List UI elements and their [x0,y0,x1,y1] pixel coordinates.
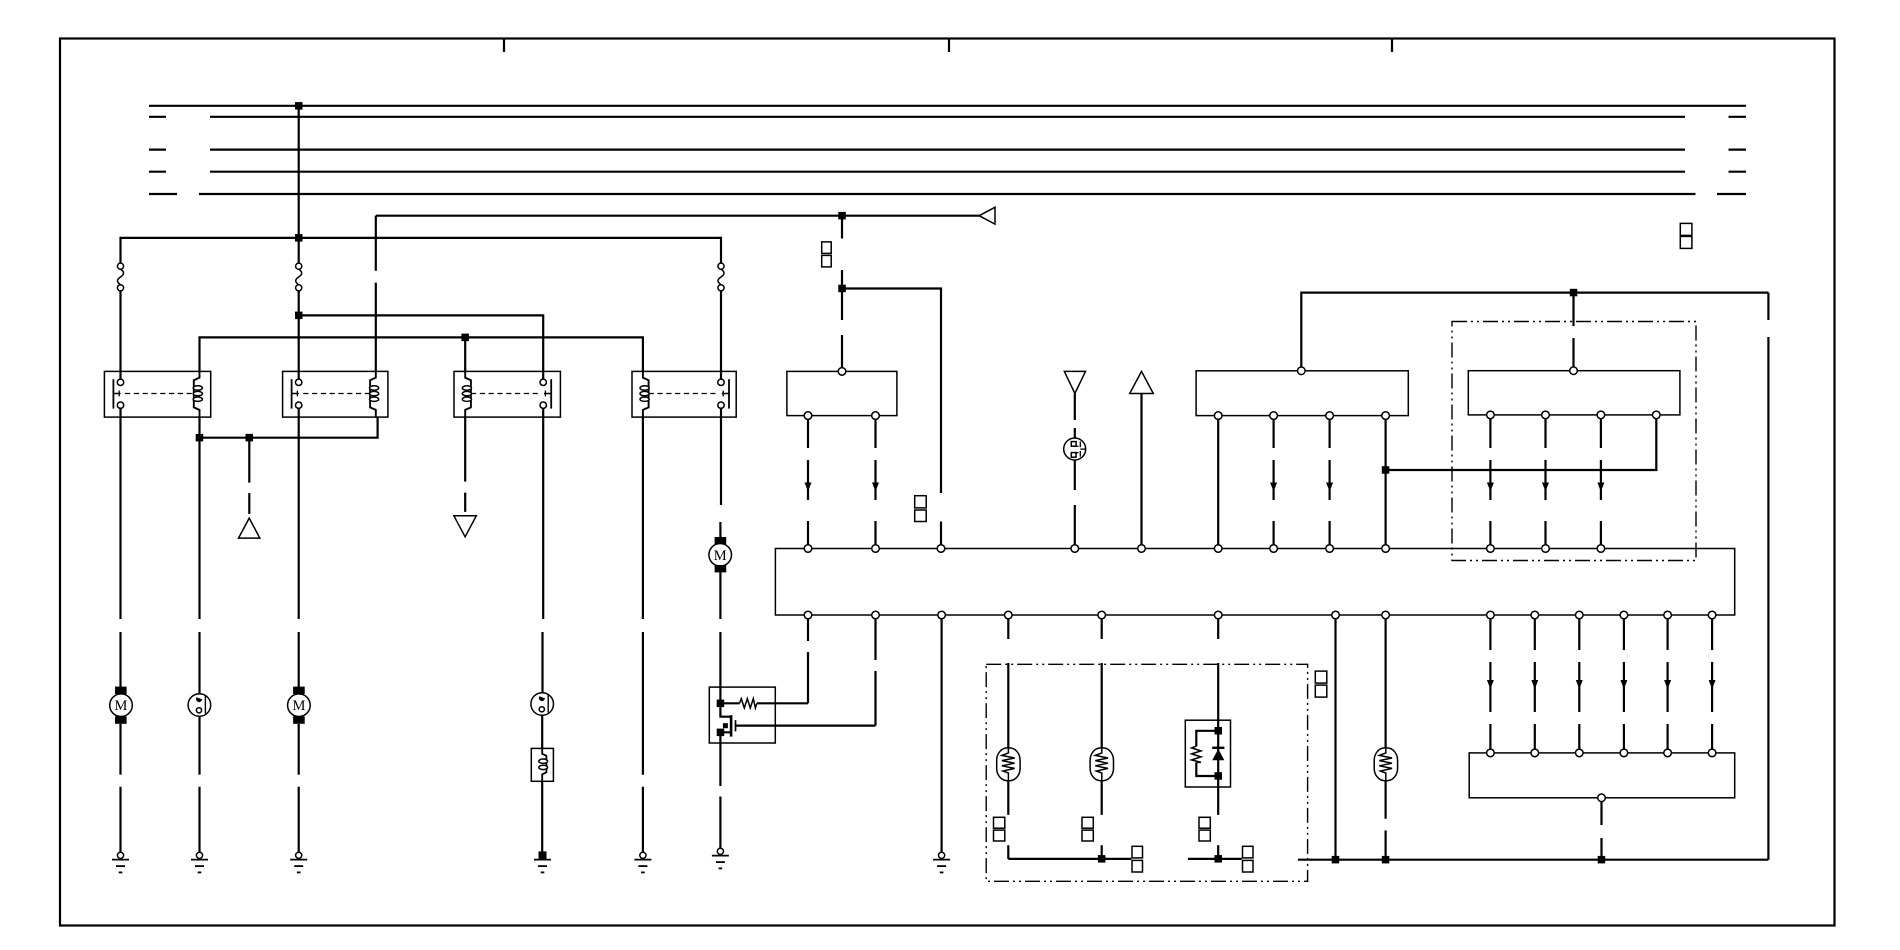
wire: coil bus junction down to washer pump P2 [198,438,200,619]
wire: right return line from wire G to ground bus (dashed) [1767,293,1769,320]
bus line 2 [149,116,166,118]
driver module box [709,687,775,743]
wire: relay R3 switch to washer pump P4 (dashed) [542,408,544,619]
junction wire B / vertical from bus 1 [295,234,303,242]
page connector triangle (down) at ECU pin 4 [1064,371,1085,393]
wire: J2 pin 3 to ECU (dashed, arrow) [1600,419,1602,448]
connector pin square [822,242,832,254]
lower connector box J3 [1469,753,1735,798]
component boundary (dash-dot box, right) [1452,322,1696,561]
wire: bulb L1 down (gap at pins) [1007,781,1009,815]
wire G: feed bus over boxes [1301,293,1768,367]
switch S1 bottom terminals [804,412,812,420]
junction on bus line 1 [295,102,303,110]
resistor R6 branch [1192,731,1219,776]
wire: U1 pin to transistor gate (dashed) [874,619,876,660]
bus line 4 [149,171,166,173]
junction bottom [1215,772,1223,780]
wire I: bulb return bus [1008,858,1131,860]
connector pin square [994,830,1005,841]
motor M3 [288,687,311,724]
cluster boundary (dash-dot box, left) [986,664,1307,881]
connector pin square [1243,846,1254,858]
control unit U1 box [775,549,1734,616]
fuse F3 [718,263,724,269]
svg-text:M: M [714,548,727,564]
relay R4 coil [640,371,649,417]
connector pin square [1315,685,1327,697]
wire E: coil return bus below relays [200,417,378,438]
connector pin square [822,255,832,267]
wire: bulb L2 down (gap at pins) [1101,781,1103,815]
junction ground bus [1332,856,1340,864]
connector pin square [915,496,927,508]
bus line 1 (top power rail) [149,105,1746,107]
bulb L3 [1374,748,1397,781]
U1 bottom pins [804,611,812,619]
wire: U1 pin to resistor (dashed) [807,619,809,641]
wire: bulb L3 to ground bus (dashed) [1384,781,1386,819]
wire: J1 pin 4 to ECU with tap [1384,419,1386,544]
wire: unit down (gap at pins) [1217,776,1219,815]
svg-text:M: M [115,698,128,714]
connector box J1 top terminal [1298,367,1306,375]
wire: down to relay R3 coil [464,337,466,371]
wire: junction down to page triangle (dashed) [248,438,250,483]
connector box J2 top terminal [1570,367,1578,375]
relay R2 box [283,371,388,417]
resistor/diode unit box [1185,720,1230,787]
connector box J1 bottom terminals [1214,412,1222,420]
junction wire H [1382,466,1390,474]
wire C: over to relay R3 switch [299,315,544,379]
relay R3 dashed link [471,393,539,395]
wire: U1 pin to ground G7 [940,619,942,853]
fuse F1 [117,263,123,269]
motor M5 [709,537,732,572]
wire D: coil bus relay R1 to relay R4 [200,337,643,371]
wire: J3 to ground bus (dashed) [1600,802,1602,825]
wire: J1 pin 3 to ECU (dashed, arrow) [1328,419,1330,448]
inline connector symbol [1064,438,1086,460]
bus line 3 [149,149,166,151]
relay R4 dashed link [649,393,717,395]
wire: J1 pin 2 to ECU (dashed, arrow) [1272,419,1274,448]
wire: fuse F3 down to relay R4 switch [720,291,722,379]
junction wire F [838,285,846,293]
junction wire J [1215,855,1223,863]
page connector triangle (down) [454,516,476,537]
wire: S1 to ECU pin (dashed with arrow) [807,419,809,448]
junction wire G [1570,289,1578,297]
wire: transistor to ground (dashed) [719,743,721,786]
relay R1 switch [113,379,123,409]
ground G7 [933,852,950,872]
washer pump P2 [188,694,211,717]
ground G4 (bolt) [534,851,551,872]
J3 bottom terminal [1598,794,1606,802]
wire: U1 pin to resistor/diode unit [1217,619,1219,639]
relay R3 switch [540,379,551,409]
wire: U1 pin to bulb L1 (dashed) [1007,619,1009,639]
wire H: to connector J2 pin 4 [1386,419,1657,470]
wire below triangle (dashed) [1074,394,1076,421]
wire: relay R3 coil down (dashed) [464,417,466,482]
junction ground bus [1598,856,1606,864]
connector box J1 [1196,371,1408,416]
connector pin square [1132,860,1143,872]
relay R2 dashed link [303,393,369,395]
relay R2 switch [292,379,302,409]
wire J: return stub [1188,858,1242,860]
connector pin square [1082,817,1093,828]
washer pump P4 [531,693,554,716]
junction ground bus [1382,856,1390,864]
junction wire D / relay R3 coil [461,334,469,342]
wire F: branch over to ECU pin [842,289,941,494]
connector pin square [1199,830,1210,841]
fuse F2 [296,263,302,269]
motor M1 [110,687,133,724]
wire: motor M5 down to transistor (dashed) [719,572,721,619]
wire A: horizontal feed to page-connector arrow [376,215,979,217]
wire: relay R4 coil to ground (dashed) [642,417,644,619]
connector pin square [1082,830,1093,841]
relay R2 coil [370,371,379,417]
wire: from wire A junction down to switch S1 (dashed) [841,216,843,239]
wire: relay R1 switch to motor M1 (dashed) [119,408,121,619]
bulb L1 [997,748,1020,781]
svg-text:M: M [292,698,305,714]
connector pin square [1315,671,1327,683]
switch S1 box [787,371,897,415]
connector pin square [1243,860,1254,872]
resistor R5 [720,699,808,708]
connector pin square [1199,817,1210,828]
wire: fuse F2 down to relay R2 switch [298,291,300,379]
wire: J1 pin 1 to ECU [1217,419,1219,544]
relay R1 box [104,371,210,417]
connector box J2 [1468,371,1680,415]
bulb L2 [1090,748,1113,781]
U1 top pins [804,545,812,553]
ground G5 [634,852,651,872]
ground G1 [112,852,129,872]
junction wire E left [196,434,204,442]
ground G6 [712,848,729,868]
junction top [1215,727,1223,735]
wire: relay R4 switch to motor M5 (dashed) [720,408,722,505]
relay R1 dashed link [125,393,193,395]
wire: J2 pin 1 to ECU (dashed, arrow) [1489,419,1491,448]
relay R1 coil [193,371,202,417]
page connector arrow (open triangle pointing left) [979,207,995,224]
junction wire I [1098,855,1106,863]
wire connector to ECU (dashed) [1074,460,1076,490]
wire: U1 pin to bulb L3 [1384,619,1386,748]
bus line 5 [149,193,177,195]
relay R3 coil [462,371,471,417]
page connector triangle (up) [239,518,260,538]
diode D1 [1212,731,1224,776]
junction at resistor tap [717,700,725,708]
switch S1 top terminal [838,368,846,376]
ground bus wire [1298,859,1769,861]
wire: pump P2 to ground (dashed) [198,716,200,774]
relay R3 box [454,371,560,417]
wire triangle to ECU [1140,394,1142,545]
wire: pump P4 to level switch [541,715,543,748]
wire: J2 pin 2 to ECU (dashed, arrow) [1544,419,1546,448]
wire: motor M3 to ground (dashed) [298,724,300,775]
wire: U1 pins to lower connector (dashed, arrows) x6 [1487,619,1494,749]
page connector triangle (up) at ECU pin 5 [1130,371,1154,393]
wire: U1 pin to ground bus [1334,619,1336,860]
J3 top terminals [1487,749,1495,757]
wire: vertical from bus line 1 down to fuse F2 [298,106,300,263]
junction on wire A [838,212,846,220]
wire: fuse F1 to relay R1 switch [119,291,121,379]
washer level switch box [531,748,553,781]
relay R4 switch [718,379,729,409]
connector pin square [1680,223,1692,235]
wire: U1 pin to bulb L2 (dashed) [1101,619,1103,639]
wire: coil feed from wire A down to relay R2 coil (dashed) [375,216,377,271]
connector pin square [915,510,927,522]
connector pin square [1132,846,1143,858]
connector box J2 bottom terminals [1487,411,1495,419]
ground G3 [290,852,307,872]
relay R4 box [632,371,736,417]
ground G2 [191,852,208,872]
connector pin square [994,817,1005,828]
junction at wire C [295,312,303,320]
wire: J2 top to wire G (dashed) [1572,338,1574,367]
wire: S1 to ECU pin (dashed with arrow) [874,419,876,448]
junction wire E / triangle branch [246,434,254,442]
wire: level switch to ground [541,781,543,852]
wire: relay R2 switch to motor M3 (dashed) [298,408,300,619]
wire: motor M1 to ground (dashed) [119,724,121,775]
transistor Q1 (FET) [717,703,876,743]
connector pin square [1680,236,1692,248]
wire B: horizontal feed to fuses [121,238,722,263]
